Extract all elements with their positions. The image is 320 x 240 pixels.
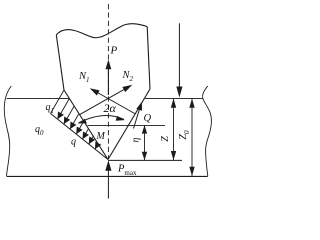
slab left break curve [4,86,11,176]
force Q arrow [134,102,143,129]
slab right break curve [203,86,212,176]
slab bottom line [7,175,208,177]
load cap line [51,90,65,114]
force N2 arrow [80,85,132,115]
punch left side [56,35,64,90]
svg-text:η: η [131,137,142,142]
long down arrow at right [176,23,182,97]
svg-text:q: q [71,137,76,148]
punch top break wave [56,24,147,38]
wedge left face [64,90,108,160]
apex level line [108,159,182,161]
load arrows q (7 shafts with heads on B) [58,99,99,150]
load envelope line B [51,114,109,160]
eta dimension arrow [142,125,147,160]
dashed centerline [107,4,109,159]
Z dimension arrow [171,99,176,161]
force P arrow [106,60,112,96]
svg-text:2α: 2α [104,101,117,115]
punch right side [147,27,150,89]
surface line left [7,98,70,100]
wedge right face [108,89,150,160]
Pmax arrow [105,160,111,198]
force N1 arrow [90,88,136,114]
svg-text:P: P [110,45,118,57]
svg-text:Z: Z [160,136,171,142]
angle arc with arrowheads [78,115,125,123]
horizontal reference line [88,124,166,126]
svg-text:Q: Q [144,113,152,124]
Z0 dimension arrow [189,99,194,177]
surface line right [144,98,203,100]
svg-text:M: M [96,131,106,142]
